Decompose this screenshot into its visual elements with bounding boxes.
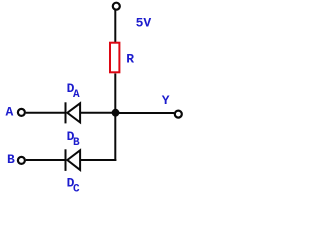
diode DA (cathode bar): [65, 102, 67, 123]
diode DA (triangle): [67, 103, 80, 122]
terminal Y: [175, 111, 182, 118]
wire junction branch (vertical): [114, 113, 116, 161]
svg-text:A: A: [6, 104, 14, 119]
wire from resistor R to node Y junction: [114, 74, 116, 114]
diode DB (triangle): [67, 150, 80, 170]
terminal A: [18, 109, 25, 116]
wire diode DA to junction: [80, 112, 115, 114]
svg-text:C: C: [73, 184, 80, 195]
resistor R: [110, 43, 119, 73]
svg-text:R: R: [126, 51, 134, 66]
wire junction to output terminal Y: [116, 112, 175, 114]
wire diode DB to junction branch (horizontal): [80, 159, 116, 161]
wire terminal B to diode DB: [26, 159, 66, 161]
svg-text:B: B: [7, 152, 15, 167]
node junction (dot): [112, 109, 120, 117]
diode DB (cathode bar): [65, 149, 67, 171]
svg-text:A: A: [73, 89, 80, 101]
svg-text:Y: Y: [162, 93, 170, 108]
wire terminal A to diode DA: [26, 112, 66, 114]
svg-text:B: B: [73, 137, 80, 149]
wire from 5V terminal to resistor R: [114, 10, 116, 43]
terminal B: [18, 157, 25, 164]
svg-text:5V: 5V: [136, 16, 152, 31]
terminal 5V (top): [113, 3, 120, 10]
